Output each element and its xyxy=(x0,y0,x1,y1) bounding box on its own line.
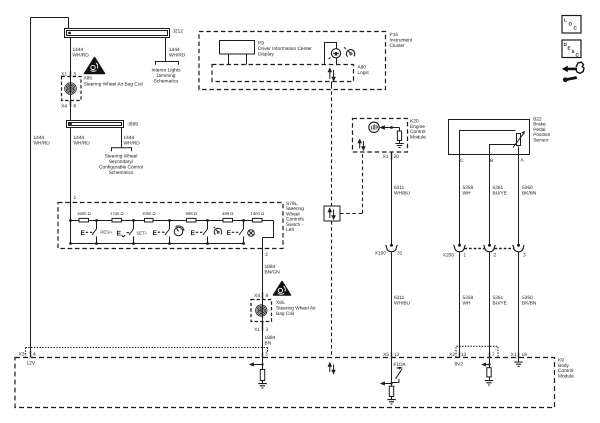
svg-text:X1: X1 xyxy=(61,72,67,78)
svg-text:BK/BN: BK/BN xyxy=(522,301,537,307)
svg-text:Interior Lights: Interior Lights xyxy=(151,68,181,74)
svg-text:B: B xyxy=(490,158,493,164)
svg-text:B22: B22 xyxy=(533,117,542,123)
svg-text:Secondary/: Secondary/ xyxy=(109,159,134,165)
svg-text:X85: X85 xyxy=(84,76,93,82)
svg-text:Logic: Logic xyxy=(358,70,370,76)
svg-text:E: E xyxy=(191,230,196,237)
svg-text:Engine: Engine xyxy=(410,124,425,130)
svg-text:BU/YE: BU/YE xyxy=(493,301,507,307)
svg-text:1: 1 xyxy=(464,253,467,259)
svg-text:C: C xyxy=(460,158,464,164)
svg-text:Steering: Steering xyxy=(286,206,304,212)
svg-text:1740 Ω: 1740 Ω xyxy=(110,211,124,216)
svg-text:F1DA: F1DA xyxy=(394,362,407,368)
svg-text:Module: Module xyxy=(410,134,426,140)
svg-text:Wheel: Wheel xyxy=(286,211,300,217)
svg-text:5359: 5359 xyxy=(463,295,474,301)
svg-text:SET/-: SET/- xyxy=(137,231,148,236)
svg-text:Schematics: Schematics xyxy=(109,170,134,176)
svg-text:Steering Wheel: Steering Wheel xyxy=(105,154,138,160)
svg-text:2: 2 xyxy=(494,253,497,259)
svg-text:WH: WH xyxy=(463,191,472,197)
svg-text:WH/BU: WH/BU xyxy=(394,301,411,307)
svg-text:8V2: 8V2 xyxy=(455,362,464,368)
svg-text:J212: J212 xyxy=(173,29,184,35)
svg-text:P16: P16 xyxy=(390,32,399,38)
svg-text:WH/RD: WH/RD xyxy=(124,141,141,147)
svg-text:X85: X85 xyxy=(276,300,285,306)
svg-text:31: 31 xyxy=(397,251,403,257)
svg-text:BN: BN xyxy=(265,341,272,347)
svg-text:X2: X2 xyxy=(449,352,455,358)
svg-text:Pedal: Pedal xyxy=(533,127,545,133)
svg-text:L: L xyxy=(564,18,567,23)
svg-text:6311: 6311 xyxy=(394,185,405,191)
svg-text:Control: Control xyxy=(410,129,425,135)
svg-text:Bag Coil: Bag Coil xyxy=(276,311,294,317)
svg-text:Position: Position xyxy=(533,132,550,138)
svg-text:E: E xyxy=(153,230,158,237)
svg-text:X4: X4 xyxy=(61,104,67,110)
svg-text:5361: 5361 xyxy=(493,295,504,301)
svg-text:WH/BU: WH/BU xyxy=(394,191,411,197)
svg-text:K20: K20 xyxy=(410,119,419,125)
svg-text:Instrument: Instrument xyxy=(390,38,413,44)
svg-text:Configurable Control: Configurable Control xyxy=(99,165,143,171)
svg-text:1400 Ω: 1400 Ω xyxy=(250,211,264,216)
svg-text:3: 3 xyxy=(523,253,526,259)
svg-text:BU/YE: BU/YE xyxy=(493,191,507,197)
svg-text:J999: J999 xyxy=(128,122,139,128)
svg-text:12: 12 xyxy=(394,352,400,358)
svg-text:1884: 1884 xyxy=(265,264,276,270)
svg-text:WH/RD: WH/RD xyxy=(74,141,91,147)
svg-text:S: S xyxy=(572,49,575,54)
svg-text:X1: X1 xyxy=(511,352,517,358)
svg-text:X4: X4 xyxy=(254,293,260,299)
svg-text:E: E xyxy=(81,230,86,237)
svg-text:X100: X100 xyxy=(375,251,387,257)
svg-text:X1: X1 xyxy=(383,154,389,160)
svg-text:Steering Wheel Air Bag Coil: Steering Wheel Air Bag Coil xyxy=(84,82,143,88)
svg-text:X5: X5 xyxy=(383,352,389,358)
svg-text:Cluster: Cluster xyxy=(390,43,406,49)
svg-text:X3: X3 xyxy=(19,352,25,358)
svg-text:Schematics: Schematics xyxy=(154,79,179,85)
svg-text:8: 8 xyxy=(266,293,269,299)
svg-text:20: 20 xyxy=(394,154,400,160)
svg-text:5: 5 xyxy=(74,72,77,78)
svg-text:WH: WH xyxy=(463,301,472,307)
svg-text:5360: 5360 xyxy=(522,295,533,301)
svg-text:1884: 1884 xyxy=(265,335,276,341)
svg-text:K9: K9 xyxy=(558,358,564,364)
svg-text:P9: P9 xyxy=(258,41,264,47)
svg-text:4: 4 xyxy=(33,352,36,358)
svg-text:Control: Control xyxy=(558,368,573,374)
svg-text:Module: Module xyxy=(558,373,574,379)
svg-text:12V: 12V xyxy=(27,361,36,367)
svg-text:E: E xyxy=(568,46,571,51)
svg-text:Left: Left xyxy=(286,227,295,233)
svg-text:A90: A90 xyxy=(358,65,367,71)
svg-text:19: 19 xyxy=(522,352,528,358)
svg-text:5361: 5361 xyxy=(493,185,504,191)
svg-text:RES/+: RES/+ xyxy=(100,230,113,235)
svg-text:13: 13 xyxy=(461,352,467,358)
svg-text:5360: 5360 xyxy=(522,185,533,191)
svg-text:O: O xyxy=(569,22,573,27)
svg-text:Controls: Controls xyxy=(286,217,304,223)
svg-text:698 Ω: 698 Ω xyxy=(186,211,197,216)
svg-text:X200: X200 xyxy=(443,253,455,259)
svg-text:E: E xyxy=(227,230,232,237)
svg-text:Sensor: Sensor xyxy=(533,137,549,143)
svg-text:BN/GN: BN/GN xyxy=(265,270,281,276)
svg-text:BK/BN: BK/BN xyxy=(522,191,537,197)
svg-text:Switch -: Switch - xyxy=(286,222,303,228)
svg-text:1444: 1444 xyxy=(74,135,85,141)
svg-text:1444: 1444 xyxy=(73,47,84,53)
svg-text:E: E xyxy=(117,231,122,238)
svg-text:1444: 1444 xyxy=(34,135,45,141)
svg-text:3400 Ω: 3400 Ω xyxy=(77,211,91,216)
svg-text:6311: 6311 xyxy=(394,295,405,301)
svg-text:X1: X1 xyxy=(254,327,260,333)
svg-text:WH/RD: WH/RD xyxy=(34,141,51,147)
svg-text:Display: Display xyxy=(258,52,274,58)
svg-text:499 Ω: 499 Ω xyxy=(222,211,233,216)
svg-text:3: 3 xyxy=(265,352,268,358)
svg-text:6: 6 xyxy=(74,104,77,110)
svg-text:WH/RD: WH/RD xyxy=(169,53,186,59)
svg-text:Steering Wheel Air: Steering Wheel Air xyxy=(276,306,316,312)
svg-text:Brake: Brake xyxy=(533,122,546,128)
svg-text:1050 Ω: 1050 Ω xyxy=(142,211,156,216)
svg-text:Driver Information Center: Driver Information Center xyxy=(258,46,312,52)
svg-text:3: 3 xyxy=(266,327,269,333)
svg-text:7: 7 xyxy=(492,352,495,358)
svg-text:WH/RD: WH/RD xyxy=(73,53,90,59)
svg-text:1444: 1444 xyxy=(169,47,180,53)
svg-text:Dimming: Dimming xyxy=(157,73,176,79)
svg-text:Body: Body xyxy=(558,363,570,369)
svg-text:1: 1 xyxy=(74,195,77,201)
svg-text:5359: 5359 xyxy=(463,185,474,191)
svg-text:S79L,: S79L, xyxy=(286,201,299,207)
svg-text:3: 3 xyxy=(265,252,268,258)
svg-text:1444: 1444 xyxy=(124,135,135,141)
